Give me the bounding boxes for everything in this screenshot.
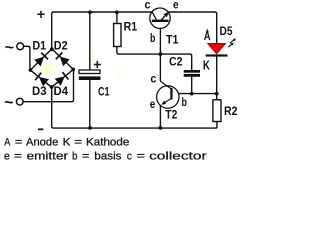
svg-text:D1: D1 xyxy=(32,41,46,53)
svg-text:b: b xyxy=(182,97,187,109)
svg-text:=: = xyxy=(82,150,90,162)
svg-text:Kathode: Kathode xyxy=(86,137,129,149)
svg-text:=: = xyxy=(137,150,145,162)
svg-text:emitter: emitter xyxy=(27,150,69,162)
svg-text:D3: D3 xyxy=(32,86,47,98)
svg-text:K: K xyxy=(203,59,210,73)
svg-text:D2: D2 xyxy=(54,41,68,53)
svg-text:R2: R2 xyxy=(224,106,238,118)
svg-text:~: ~ xyxy=(4,94,13,111)
svg-text:~: ~ xyxy=(5,39,14,56)
svg-text:e: e xyxy=(150,99,156,111)
svg-text:D5: D5 xyxy=(220,26,234,38)
svg-text:b: b xyxy=(72,150,77,162)
svg-text:b: b xyxy=(150,33,155,45)
svg-text:c: c xyxy=(150,74,157,86)
svg-text:collector: collector xyxy=(149,150,207,162)
svg-text:Anode: Anode xyxy=(26,137,58,149)
svg-text:K: K xyxy=(63,137,71,149)
svg-text:F: F xyxy=(44,61,54,80)
svg-text:=: = xyxy=(74,137,82,149)
svg-text:e: e xyxy=(4,150,10,162)
svg-text:R1: R1 xyxy=(124,21,138,33)
svg-text:c: c xyxy=(127,150,132,162)
svg-text:A: A xyxy=(4,137,11,149)
svg-text:e: e xyxy=(173,0,179,11)
svg-text:A: A xyxy=(204,31,211,43)
svg-text:basis: basis xyxy=(94,150,122,162)
svg-text:c: c xyxy=(145,0,152,12)
svg-text:C1: C1 xyxy=(98,87,110,99)
svg-text:T1: T1 xyxy=(166,35,179,47)
svg-text:T2: T2 xyxy=(165,109,177,121)
svg-text:D4: D4 xyxy=(54,86,69,98)
svg-text:=: = xyxy=(15,137,22,149)
svg-text:=: = xyxy=(14,150,22,162)
svg-text:C2: C2 xyxy=(169,57,183,69)
